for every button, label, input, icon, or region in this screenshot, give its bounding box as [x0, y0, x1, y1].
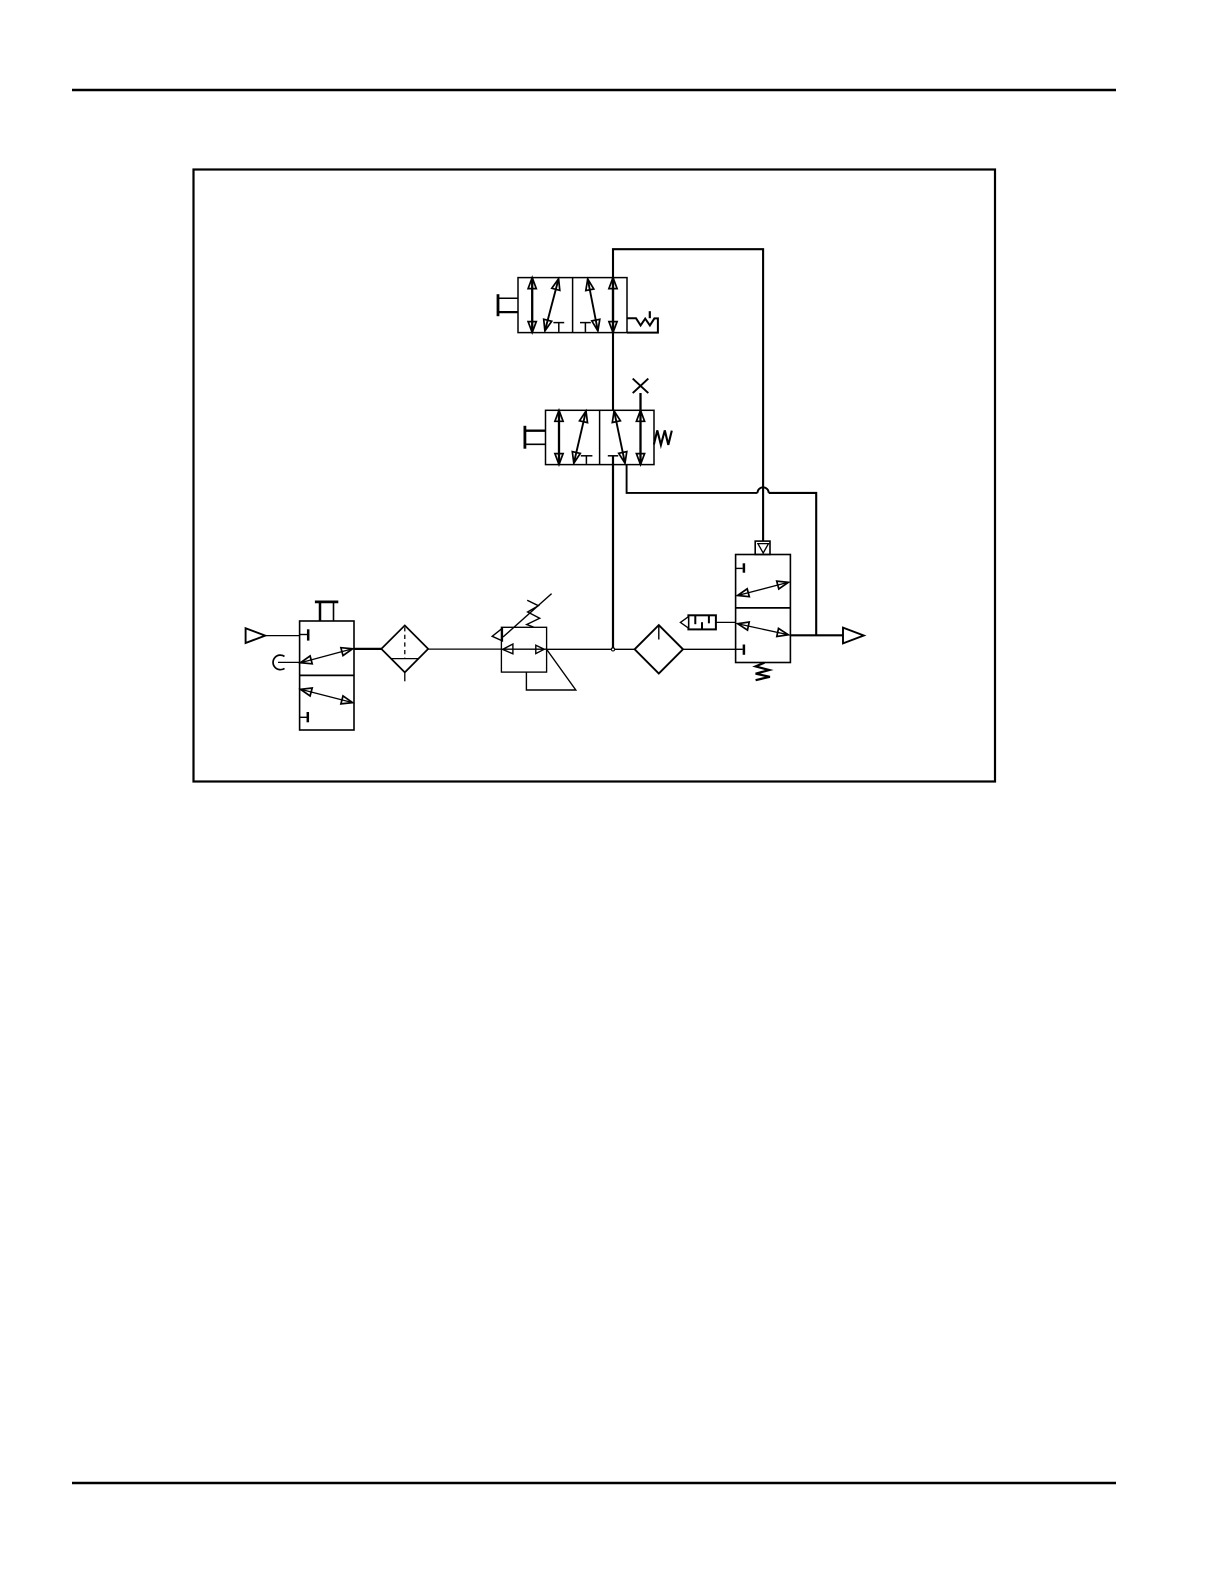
valve V2 right chamber blocked port T	[580, 323, 591, 332]
wire pilot drop to output line	[769, 493, 817, 635]
valve V1 body (3/2 plunger valve)	[300, 621, 354, 730]
wire supply to valve V1	[265, 635, 299, 637]
valve V3 right chamber cross arrow	[614, 411, 625, 463]
valve V3 right chamber straight arrow	[639, 410, 641, 464]
valve V4 return spring	[756, 663, 770, 681]
wire R1 to junction to filter F2	[547, 648, 635, 650]
wire F1 to regulator R1	[428, 648, 501, 650]
valve V3 plunger actuator	[525, 426, 546, 449]
valve V2 plunger actuator	[498, 294, 518, 316]
regulator R1 right arrowhead	[536, 645, 545, 653]
valve V4 upper flow arrow	[738, 582, 789, 595]
valve V3 return spring	[654, 430, 672, 445]
valve V4 body (3/2 pilot valve)	[736, 555, 791, 663]
figure frame	[194, 170, 996, 782]
valve V4 lower flow arrow	[738, 624, 789, 635]
wire V1 to filter F1	[354, 648, 381, 650]
output port triangle A	[843, 628, 864, 644]
silencer S1	[680, 615, 716, 629]
valve V1 port 3 blocked	[300, 712, 308, 722]
valve V2 right chamber straight arrow	[612, 278, 614, 333]
filter F1 with water trap	[381, 625, 428, 681]
header rule	[72, 89, 1116, 92]
supply source triangle P	[246, 628, 266, 643]
wire riser lower segment	[612, 456, 614, 649]
wire crossover hop	[758, 487, 769, 493]
valve V1 plunger actuator	[315, 602, 338, 621]
wire top header run	[613, 249, 763, 541]
valve V3 left chamber cross arrow	[574, 411, 586, 463]
valve V3 blocked vent line with X	[633, 379, 649, 411]
wire S1 to valve V4	[716, 621, 736, 623]
valve V2 body (5/2 plunger valve)	[518, 278, 627, 333]
valve V4 port blocked upper	[736, 563, 744, 572]
junction node A	[611, 648, 614, 651]
valve V3 body (3/2 plunger valve)	[546, 410, 655, 464]
valve V3 left chamber straight arrow	[558, 410, 560, 464]
valve V2 left chamber straight arrow	[531, 278, 533, 333]
valve V4 pilot head	[755, 541, 770, 554]
wire F2 to valve V4	[683, 648, 736, 650]
wire V3 pilot outlet	[627, 465, 758, 493]
valve V1 port 1 blocked	[300, 629, 309, 640]
regulator R1 left arrowhead	[503, 644, 513, 654]
valve V2 left chamber blocked port T	[553, 323, 564, 332]
footer rule	[72, 1482, 1116, 1484]
regulator R1 adjusting arrow	[492, 594, 551, 641]
regulator R1 relief vent path	[526, 650, 575, 690]
valve V4 port blocked lower	[736, 645, 744, 655]
valve V1 manual hook actuator	[273, 655, 300, 670]
valve V2 left chamber cross arrow	[545, 279, 559, 331]
valve V2 right chamber cross arrow	[588, 279, 598, 331]
valve V2 return spring	[627, 311, 658, 332]
valve V3 left chamber blocked port T	[581, 456, 593, 464]
regulator R1 body	[501, 627, 546, 672]
regulator R1 adjusting spring	[527, 600, 540, 627]
regulator R1 flow line	[501, 648, 546, 650]
valve V1 upper flow arrow	[301, 649, 353, 663]
filter F2	[635, 625, 683, 673]
valve V1 lower flow arrow	[301, 689, 353, 702]
wire V4 output	[790, 634, 843, 636]
valve V3 right chamber port T	[608, 455, 618, 457]
